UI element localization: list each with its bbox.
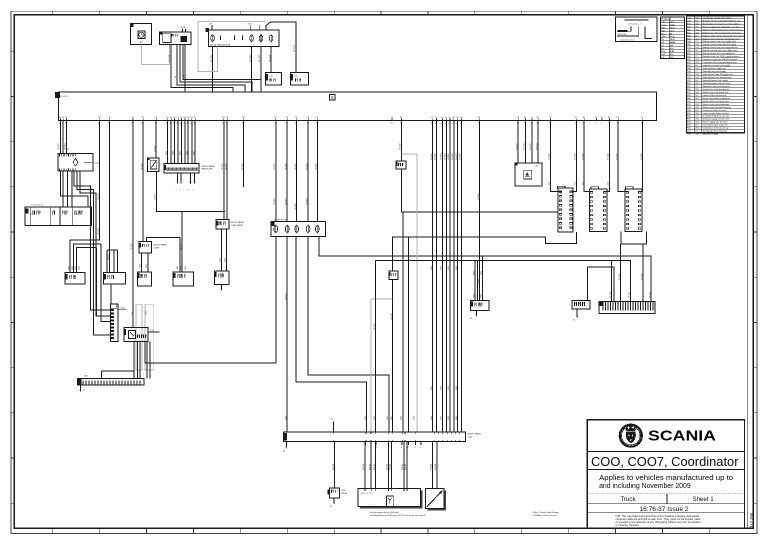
svg-text:C4: C4: [601, 117, 603, 119]
svg-text:C4: C4: [226, 117, 228, 119]
wire J29 down then right to C232 junction: [156, 172, 225, 212]
svg-text:16-0808: 16-0808: [460, 153, 462, 160]
svg-text:15: 15: [549, 117, 551, 119]
svg-text:R4: R4: [151, 330, 153, 332]
wire gray battery to unit P2 (down right up): [141, 44, 169, 64]
pin ticks coordinator top: [364, 489, 366, 492]
svg-text:C4: C4: [452, 117, 454, 119]
fuse symbol at x213 in fuse box P1: [211, 35, 215, 41]
component comb connector C161 vertical: [111, 304, 118, 341]
svg-text:© Milou / Scania Vabis Sverige: © Milou / Scania Vabis Sverige: [532, 511, 560, 514]
svg-text:16-1004: 16-1004: [608, 153, 610, 160]
svg-text:16-0565: 16-0565: [242, 163, 244, 170]
svg-text:1590: 1590: [132, 311, 134, 315]
wire P2 pin3 L-path to bus: [180, 44, 252, 92]
svg-text:16-1110: 16-1110: [610, 292, 612, 298]
svg-text:16-1006: 16-1006: [641, 153, 643, 160]
component connector C109: [104, 273, 126, 284]
fuse symbol P8 x308: [306, 226, 310, 233]
svg-text:30: 30: [295, 117, 297, 119]
wire 24V bar to connector C370: [334, 442, 336, 488]
svg-text:1846: 1846: [72, 266, 74, 270]
rail y210 relay R1 to connector C503: [402, 211, 558, 213]
svg-text:16-0911: 16-0911: [524, 144, 526, 150]
svg-text:R13: R13: [295, 76, 298, 78]
stub below C233 with arrow: [220, 284, 222, 289]
wire bus pin to C146 pin2: [62, 121, 64, 154]
wire gray loop around fuse box: [198, 22, 217, 72]
component connector block C195: [25, 207, 92, 226]
svg-text:4: 4: [142, 123, 143, 125]
ground symbol below bar G10: [79, 385, 81, 390]
legend table small: [661, 17, 685, 58]
svg-text:MAIN FUSE: MAIN FUSE: [202, 168, 214, 171]
component connector C237: [173, 272, 193, 286]
svg-text:16-1306: 16-1306: [402, 464, 404, 470]
svg-text:LIGHT: LIGHT: [154, 247, 161, 249]
component connector strip C11 wide: [164, 164, 199, 173]
svg-text:16-0525: 16-0525: [154, 145, 156, 152]
svg-text:COMPTMENT: COMPTMENT: [231, 225, 245, 227]
wire C146 to block C195 pin c: [71, 171, 73, 207]
svg-text:16-0913: 16-0913: [536, 143, 538, 150]
svg-text:15 30: 15 30: [181, 27, 187, 29]
svg-text:30: 30: [175, 76, 177, 78]
wire drop from branch to connector C237: [181, 211, 183, 271]
svg-text:16-0801: 16-0801: [431, 153, 433, 160]
svg-text:C4: C4: [187, 117, 189, 119]
wires below strip C11 with arrows: [177, 173, 179, 183]
svg-text:16-1504: 16-1504: [169, 55, 171, 62]
component small box C197: [139, 242, 152, 254]
svg-text:4: 4: [166, 123, 167, 125]
svg-text:16-1309: 16-1309: [435, 464, 437, 470]
wire bus to connector C109 pin2: [109, 121, 111, 273]
svg-text:X2: X2: [524, 117, 526, 119]
title block scania logo badge: [620, 425, 642, 447]
svg-text:16-0731: 16-0731: [374, 323, 376, 330]
svg-text:2: 2: [155, 123, 156, 125]
svg-text:1361: 1361: [431, 266, 433, 270]
wires 24V bar to coordinator box: [364, 442, 366, 489]
wire bus to C503 right pin: [571, 121, 576, 192]
svg-text:455: 455: [582, 182, 584, 185]
svg-text:16-0410: 16-0410: [98, 228, 100, 235]
wire fuse1 to bus: [212, 46, 214, 92]
svg-text:F5: F5: [400, 117, 402, 119]
svg-text:1315: 1315: [391, 416, 393, 420]
svg-text:16-0609: 16-0609: [306, 198, 308, 205]
stub from C161 to label: [118, 309, 127, 311]
bus bar reference symbol 5: [330, 95, 336, 101]
svg-text:and including November 2009: and including November 2009: [599, 483, 691, 490]
svg-text:1701: 1701: [473, 294, 475, 298]
svg-text:31: 31: [390, 123, 392, 125]
wire drop from rail y256 to connector C504: [481, 256, 483, 301]
svg-text:4: 4: [187, 123, 188, 125]
svg-text:+24V: +24V: [468, 436, 473, 438]
svg-text:F5: F5: [170, 117, 172, 119]
svg-text:16-0603: 16-0603: [295, 163, 297, 170]
svg-text:30: 30: [478, 117, 480, 119]
wire bus to C504b left pin: [584, 121, 593, 192]
wire C146 rail 2 down right side: [77, 171, 111, 335]
svg-text:31: 31: [332, 418, 334, 420]
shield outline gray 1: [136, 304, 142, 370]
svg-text:9: 9: [431, 123, 432, 125]
svg-text:16-0912: 16-0912: [530, 143, 532, 150]
svg-text:1652: 1652: [441, 416, 443, 420]
stub below C232 with arrow: [220, 229, 222, 271]
svg-text:C4: C4: [441, 117, 443, 119]
component fuse strip P8: [271, 222, 325, 237]
svg-text:For Regulations and HP docs (C: For Regulations and HP docs (COO7) circu…: [370, 514, 426, 517]
svg-text:C1: C1: [155, 117, 157, 119]
title block divider 4: [587, 512, 744, 514]
frame ruler ticks bottom: [52, 529, 54, 533]
pin stubs above fuse box P1: [211, 25, 213, 30]
svg-text:16-1205: 16-1205: [250, 55, 252, 62]
component memory box shadow: [427, 490, 446, 510]
svg-text:2: 2: [460, 123, 461, 125]
svg-text:INSTR. PANEL: INSTR. PANEL: [202, 165, 216, 168]
frame ruler ticks left: [11, 50, 15, 52]
svg-text:16-0805: 16-0805: [448, 153, 450, 160]
wire bus drop to relay R4 pin1: [132, 121, 134, 328]
svg-text:9: 9: [316, 123, 317, 125]
wire U-loop below connector C505: [621, 231, 647, 244]
svg-text:16-1206: 16-1206: [259, 55, 261, 62]
svg-text:5: 5: [189, 189, 191, 190]
svg-text:1364: 1364: [456, 266, 458, 270]
svg-text:16-0820: 16-0820: [478, 193, 480, 200]
wire gray from relay R1 down to 24V bar: [416, 154, 418, 432]
svg-text:INSTR. PANEL: INSTR. PANEL: [468, 433, 482, 436]
wire bus stub x243 with arrow: [243, 121, 245, 187]
svg-text:INSTR. PANEL: INSTR. PANEL: [231, 221, 245, 224]
stub relay R4 right to label: [148, 331, 159, 333]
svg-text:16-0561: 16-0561: [225, 163, 227, 170]
svg-text:16-0590: 16-0590: [131, 243, 133, 250]
svg-text:X2: X2: [307, 117, 309, 119]
svg-text:16-0604: 16-0604: [306, 163, 308, 170]
svg-text:1345: 1345: [74, 214, 78, 216]
wire P8 f2 down to 24V bar: [286, 237, 288, 432]
svg-text:30: 30: [583, 117, 585, 119]
svg-text:1562: 1562: [225, 258, 227, 262]
component C232 small: [216, 220, 229, 229]
svg-text:1312: 1312: [365, 416, 367, 420]
svg-text:16-1112: 16-1112: [649, 292, 651, 298]
svg-text:4: 4: [194, 123, 195, 125]
fuse symbol at x271 in fuse box P1: [269, 35, 273, 41]
component coordinator unit C259: [358, 489, 421, 507]
svg-text:1366: 1366: [441, 386, 443, 390]
svg-text:9: 9: [190, 123, 191, 125]
svg-text:X2: X2: [183, 117, 185, 119]
svg-text:1610: 1610: [177, 266, 179, 270]
wire bus to C503 left pin: [551, 121, 561, 194]
fuse symbol at x252 in fuse box P1: [250, 35, 254, 41]
svg-text:C1: C1: [286, 117, 288, 119]
svg-text:9: 9: [177, 123, 178, 125]
svg-text:453: 453: [549, 182, 551, 185]
svg-text:wiring 100 + 1: wiring 100 + 1: [628, 24, 641, 26]
wires drop from rail y260 to connector C504: [474, 260, 476, 300]
svg-text:9: 9: [295, 123, 296, 125]
svg-text:1847: 1847: [75, 266, 77, 270]
title block divider 3: [587, 503, 744, 505]
svg-text:4: 4: [98, 123, 99, 125]
svg-text:16-1005: 16-1005: [616, 153, 618, 160]
svg-text:1591: 1591: [145, 311, 147, 315]
svg-text:0312: 0312: [173, 151, 175, 155]
legend mini-diagram box: [616, 17, 657, 42]
svg-text:16-1213: 16-1213: [294, 45, 296, 52]
wire C146 rail 1 down right side: [74, 171, 111, 310]
svg-text:C4: C4: [391, 117, 393, 119]
wire relay R2 bottom down: [392, 280, 394, 300]
svg-text:16-0301: 16-0301: [58, 143, 60, 150]
svg-text:16-76-011: 16-76-011: [618, 34, 628, 36]
title block divider dashed: [587, 493, 744, 495]
svg-text:1703: 1703: [481, 294, 483, 298]
svg-text:1367: 1367: [448, 386, 450, 390]
frame ruler ticks top: [52, 11, 54, 14]
svg-text:F5: F5: [142, 117, 144, 119]
svg-text:C792: C792: [535, 166, 539, 168]
svg-text:INSTR. PANEL: INSTR. PANEL: [154, 244, 168, 247]
svg-text:7: 7: [549, 123, 550, 125]
wire P2 pin4 L-path to bus: [183, 44, 261, 92]
svg-text:1723: 1723: [481, 271, 483, 275]
wire fuse3 to bus: [251, 46, 253, 92]
bus bar left terminal block: [55, 92, 60, 98]
svg-text:COO, COO7, Coordinator: COO, COO7, Coordinator: [591, 455, 739, 469]
component battery clock unit E23: [130, 23, 151, 44]
component relay R1 center: [396, 161, 406, 169]
title block divider 2: [587, 469, 744, 471]
svg-text:16-0803: 16-0803: [441, 153, 443, 160]
component ignition lock unit P2: [160, 32, 192, 45]
svg-text:4: 4: [65, 123, 66, 125]
svg-text:Vehicles/types (prior) 2008 bu: Vehicles/types (prior) 2008 built: [370, 511, 399, 514]
wire loop C510 up over to comb C506: [588, 267, 614, 302]
ground stub below C370: [333, 498, 335, 503]
svg-text:4: 4: [222, 123, 223, 125]
component coordinator unit shadow: [360, 490, 423, 508]
wire C505 loop drop to comb C506 right: [642, 244, 644, 301]
wires bus to fuse strip P8: [275, 121, 277, 222]
wire C146 to block C195 pin b: [67, 171, 69, 207]
wires C197 to connector C238: [141, 253, 143, 272]
svg-text:0314: 0314: [186, 151, 188, 155]
svg-text:16-0804: 16-0804: [445, 153, 447, 160]
svg-text:16-1102: 16-1102: [641, 274, 643, 280]
svg-text:30 15: 30 15: [248, 23, 253, 25]
antenna symbol in coordinator: [386, 496, 393, 507]
svg-text:16-1310: 16-1310: [333, 464, 335, 470]
svg-text:15: 15: [641, 117, 643, 119]
wire bus pin to C146 pin1: [60, 121, 62, 154]
svg-text:C4: C4: [98, 117, 100, 119]
svg-text:15: 15: [194, 117, 196, 119]
svg-text:31: 31: [68, 148, 70, 150]
wire P8 f4 L-path to 24V bar: [308, 237, 389, 432]
svg-text:16-0560: 16-0560: [222, 163, 224, 170]
svg-text:30: 30: [242, 117, 244, 119]
svg-text:0311: 0311: [166, 151, 168, 155]
svg-text:16-0601: 16-0601: [274, 163, 276, 170]
wire corner drop x375 to 24V bar: [375, 260, 377, 432]
svg-text:15: 15: [166, 117, 168, 119]
svg-text:4: 4: [595, 123, 596, 125]
svg-text:1368: 1368: [456, 386, 458, 390]
wire C505 loop drop to comb C506 left: [620, 244, 622, 301]
svg-text:16-0720: 16-0720: [391, 313, 393, 320]
svg-text:Alternator supply: Alternator supply: [703, 133, 720, 136]
wire C109 to comb connector C161: [110, 284, 112, 304]
wire rail to connector C108 pin3: [77, 247, 97, 272]
shield outline gray 2: [145, 304, 153, 370]
wires bus to diagnostic unit C792: [517, 121, 519, 163]
wire fuse5 to relay R12: [270, 46, 272, 72]
svg-text:9: 9: [131, 123, 132, 125]
pin bar at x220 in fuse box P1: [219, 36, 222, 41]
component connector C233: [214, 271, 229, 285]
svg-text:16-0807: 16-0807: [456, 153, 458, 160]
svg-text:1316: 1316: [400, 416, 402, 420]
svg-text:1362: 1362: [441, 266, 443, 270]
svg-text:2: 2: [456, 123, 457, 125]
component comb connector C506: [599, 301, 655, 313]
svg-text:C1 C2 C3 C4: C1 C2 C3 C4: [31, 205, 44, 207]
wires bus to C232: [223, 121, 225, 220]
svg-text:9: 9: [530, 123, 531, 125]
wire bus to C197: [142, 121, 144, 242]
svg-text:1653: 1653: [448, 416, 450, 420]
svg-text:bbne: bbne: [670, 27, 676, 29]
svg-text:16-0527: 16-0527: [155, 193, 157, 200]
svg-text:1561: 1561: [220, 258, 222, 262]
component connector ladder C503: [558, 188, 573, 232]
svg-text:C1: C1: [65, 117, 67, 119]
svg-text:7: 7: [478, 123, 479, 125]
svg-text:1612: 1612: [185, 266, 187, 270]
svg-text:16-0802: 16-0802: [435, 153, 437, 160]
wire P2 pin1 L-path to bus: [171, 44, 233, 92]
pin stubs above unit P2: [182, 29, 184, 32]
svg-text:16-1003: 16-1003: [582, 153, 584, 160]
svg-text:1571: 1571: [140, 264, 142, 268]
svg-text:C1: C1: [180, 117, 182, 119]
svg-text:30: 30: [537, 117, 539, 119]
wire C146 rail 3 down right side: [80, 171, 111, 316]
svg-text:F5: F5: [608, 117, 610, 119]
wire rail to connector C108 pin2: [74, 244, 94, 273]
svg-text:16-0550: 16-0550: [141, 163, 143, 170]
wire fuse4 to bus: [260, 46, 262, 92]
component connector C108: [65, 273, 85, 284]
svg-text:16-1301: 16-1301: [363, 464, 365, 470]
component memory box with diagonal: [426, 489, 445, 509]
svg-text:16-0806: 16-0806: [452, 153, 454, 160]
svg-text:16-0821: 16-0821: [478, 278, 480, 285]
svg-text:9: 9: [274, 123, 275, 125]
wire rail junction comb V pin3: [101, 244, 111, 322]
svg-text:16:76-37 Issue 2: 16:76-37 Issue 2: [639, 506, 688, 513]
wire bus to relay R1: [401, 121, 403, 162]
svg-text:2: 2: [452, 123, 453, 125]
svg-text:C4: C4: [460, 117, 462, 119]
bus bar bottom pin ticks and pin number labels: [60, 119, 62, 121]
wire C146 L-path to block C195 pin d: [61, 171, 88, 207]
ground stub below C504: [475, 311, 477, 315]
svg-text:456: 456: [608, 182, 610, 185]
svg-text:C1: C1: [132, 117, 134, 119]
component relay R13: [291, 73, 309, 85]
svg-text:16-0606: 16-0606: [274, 198, 276, 205]
component ground bar G10 comb: [77, 379, 144, 386]
wire bus to C504b right pin: [603, 121, 609, 192]
wire relay R1 down to rail y210: [401, 169, 403, 212]
svg-text:2: 2: [242, 123, 243, 125]
svg-text:15: 15: [62, 117, 64, 119]
svg-text:5: 5: [176, 189, 178, 190]
svg-text:C4: C4: [445, 117, 447, 119]
svg-text:16-1111: 16-1111: [629, 292, 631, 298]
svg-text:30: 30: [456, 117, 458, 119]
fuse symbol at x261 in fuse box P1: [259, 35, 263, 41]
svg-text:16-0910: 16-0910: [516, 143, 518, 150]
component switch J29 with slash: [147, 158, 159, 172]
title block outer: [587, 420, 744, 529]
svg-text:1702: 1702: [477, 294, 479, 298]
pin bar at x234 in fuse box P1: [233, 36, 236, 41]
svg-text:4: 4: [401, 447, 402, 449]
svg-text:C370: C370: [341, 490, 346, 492]
svg-text:16-0412: 16-0412: [108, 253, 110, 260]
pin bar at x243 in fuse box P1: [241, 36, 244, 41]
svg-text:1314: 1314: [387, 416, 389, 420]
svg-text:1313: 1313: [374, 416, 376, 420]
fuse symbol P8 x276: [274, 226, 278, 233]
wire P2 pin2 L-path to bus: [177, 44, 245, 92]
svg-text:2: 2: [600, 123, 601, 125]
svg-text:© Will Alprin / Scania Group: © Will Alprin / Scania Group: [532, 514, 558, 517]
svg-text:16-1001: 16-1001: [549, 153, 551, 160]
svg-text:2: 2: [617, 123, 618, 125]
component connector ladder C505: [625, 189, 642, 232]
ground stub below left end of 24V bar: [285, 442, 287, 447]
svg-text:R12: R12: [270, 76, 273, 78]
stubs below 24V bar with labels: [364, 442, 366, 446]
svg-text:16-0602: 16-0602: [285, 163, 287, 170]
wires relay R4 to ground bar: [133, 342, 135, 379]
svg-text:16-0612: 16-0612: [285, 293, 287, 300]
svg-text:9: 9: [108, 123, 109, 125]
svg-text:10A 5A 15A 10A 10A 5A: 10A 5A 15A 10A 10A 5A: [210, 43, 231, 46]
wire gray L from relay R2 to 24V bar: [371, 299, 393, 432]
svg-text:1245: 1245: [30, 214, 34, 216]
svg-text:C4: C4: [190, 117, 192, 119]
frame ruler ticks right: [753, 50, 757, 52]
svg-text:16-1210: 16-1210: [269, 55, 271, 62]
svg-text:9: 9: [583, 123, 584, 125]
svg-text:16-0411: 16-0411: [98, 194, 100, 200]
svg-text:8: 8: [407, 447, 408, 449]
wire drop from rail y210 to 24V bar: [402, 212, 404, 432]
